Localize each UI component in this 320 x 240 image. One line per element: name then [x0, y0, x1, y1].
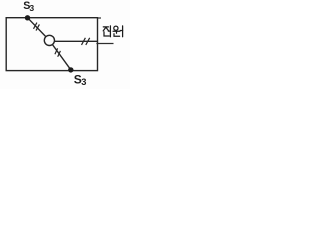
wire: lamp to power source (horizontal)	[49, 40, 97, 42]
label: 전원 syllable 원	[113, 26, 123, 37]
label: S3 (bottom)	[74, 72, 87, 87]
svg-text:3: 3	[29, 3, 34, 13]
node: top terminal dot S3	[25, 15, 30, 20]
svg-text:3: 3	[81, 77, 86, 87]
break marks on bottom wire	[55, 48, 61, 56]
node: bottom terminal dot S3	[68, 67, 73, 72]
label: S3 (top)	[23, 0, 34, 13]
break marks on top wire	[34, 23, 40, 31]
power source box (partial, fades right)	[96, 18, 113, 44]
lamp L1 (circle)	[44, 35, 54, 45]
circuit frame rectangle	[6, 18, 97, 71]
break marks on horizontal wire	[82, 38, 90, 45]
label: 전원 (power) drawn as strokes, syllable 전	[103, 26, 110, 37]
wire: top terminal S3 to lamp (diagonal)	[28, 18, 50, 41]
wire: lamp to bottom terminal S3 (diagonal)	[49, 40, 70, 69]
